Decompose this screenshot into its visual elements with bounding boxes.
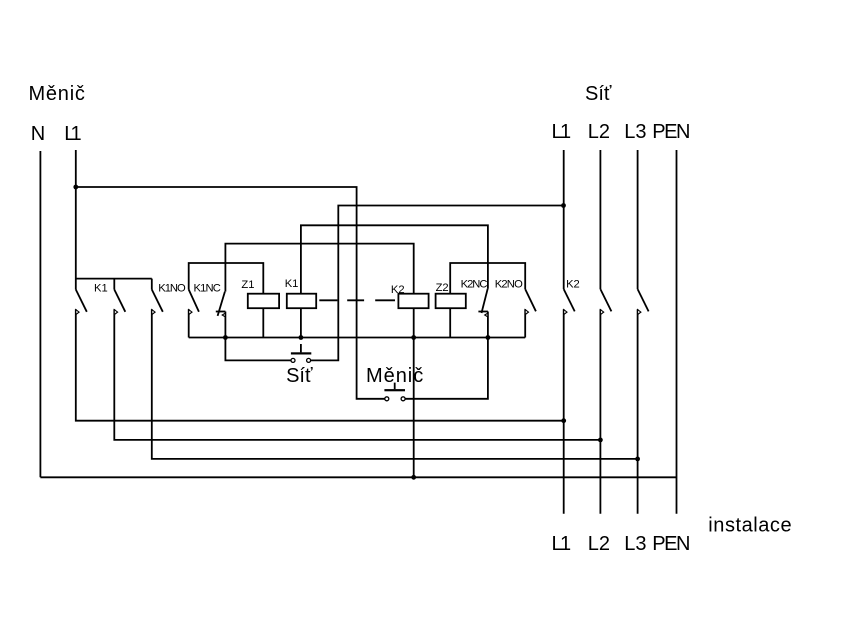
svg-text:Síť: Síť <box>286 365 313 387</box>
wire from K1NC contact top to K2 coil top <box>225 244 413 294</box>
junction dot output L2 <box>598 438 603 443</box>
junction dot mains L1 control tap <box>561 203 566 208</box>
junction dot K2NC/K2NO common <box>486 335 491 340</box>
svg-text:PEN: PEN <box>652 121 690 143</box>
svg-text:K1: K1 <box>94 283 108 295</box>
svg-text:Z2: Z2 <box>436 282 449 294</box>
auxiliary contact K2NC lower terminal down to Menic pushbutton <box>405 312 488 399</box>
coil K1 bottom stub <box>300 308 302 338</box>
svg-text:L3: L3 <box>624 533 646 555</box>
junction dot L1 inverter tap <box>73 185 78 190</box>
pushbutton Menic actuator bar <box>384 389 405 391</box>
contact tip K1 pole 2 <box>114 310 117 315</box>
junction dot output L3 <box>635 457 640 462</box>
contact tip K1NC <box>222 313 225 317</box>
mains L1 vertical wire upper <box>563 150 565 289</box>
contactor K1 pole 1 lower terminal to output L1 wire <box>76 309 564 421</box>
installation L3 vertical wire <box>637 309 639 514</box>
contactor K1 pole 3 top stub <box>151 279 153 290</box>
svg-text:K2: K2 <box>391 284 405 296</box>
auxiliary contact K1NC lower terminal <box>224 312 226 338</box>
svg-text:K1NC: K1NC <box>194 283 221 295</box>
node N (inverter neutral) vertical wire <box>39 151 41 477</box>
contact tip K1 pole 3 <box>152 310 155 315</box>
contactor K1 pole 2 blade <box>114 290 125 312</box>
pushbutton Sit actuator bar <box>291 352 311 354</box>
PEN vertical wire <box>676 150 678 514</box>
coil K2 <box>398 294 428 309</box>
svg-text:Měnič: Měnič <box>366 365 423 387</box>
mechanical interlock dashed link K1-K2 <box>319 299 395 301</box>
junction dot K2 coil bottom <box>411 335 416 340</box>
coil Z1 bottom stub <box>262 308 264 338</box>
auxiliary contact K2NC blade <box>482 289 488 313</box>
svg-text:L2: L2 <box>588 533 610 555</box>
junction dot K1 coil bottom <box>299 335 304 340</box>
wire from K1 coil top to K2NC contact top <box>301 225 488 293</box>
pushbutton Sit left terminal circle <box>291 358 295 362</box>
pushbutton Menic right terminal circle <box>401 397 405 401</box>
contactor K1 pole bridge wire <box>76 278 152 280</box>
auxiliary contact K2NO blade <box>525 289 536 311</box>
junction dot output L1 <box>561 418 566 423</box>
contact tip K2NC <box>485 313 488 317</box>
coil Z2 bottom stub <box>449 308 451 338</box>
svg-text:K2NO: K2NO <box>495 279 523 291</box>
contact tip K2 pole 3 <box>638 310 641 315</box>
svg-text:K2: K2 <box>566 278 580 290</box>
svg-text:L1: L1 <box>552 121 572 143</box>
contact tip K2 pole 1 <box>564 310 567 315</box>
svg-text:L1: L1 <box>552 533 572 555</box>
auxiliary contact K1NC blade <box>218 292 225 316</box>
mains L3 vertical wire upper <box>637 150 639 289</box>
auxiliary contact K2NC fixed bar <box>478 311 488 313</box>
svg-text:K2NC: K2NC <box>461 279 488 291</box>
contactor K1 pole 2 lower terminal to output L2 wire <box>114 309 600 440</box>
coil K2 bottom wire down to bottom bus <box>413 308 415 478</box>
node L1 (inverter) vertical wire down to K1 bridge <box>75 150 77 290</box>
junction dot K1NO/K1NC common <box>223 335 228 340</box>
wire from Z2 coil top to K2NO contact top <box>450 263 525 294</box>
installation L2 vertical wire <box>599 309 601 514</box>
mains L2 vertical wire upper <box>599 150 601 289</box>
contactor K1 pole 2 top stub <box>113 279 115 290</box>
contact tip K1 pole 1 <box>76 310 79 315</box>
contact tip K1NO <box>189 310 192 315</box>
coil Z2 <box>436 294 466 309</box>
wire from K1NO contact top to Z1 coil top <box>189 263 264 294</box>
svg-text:Z1: Z1 <box>241 279 254 291</box>
contactor K2 pole 1 blade <box>564 289 575 311</box>
contactor K2 pole 3 blade <box>638 289 649 311</box>
contactor K2 pole 2 blade <box>600 289 611 311</box>
svg-text:L1: L1 <box>64 123 81 145</box>
contact tip K2 pole 2 <box>600 310 603 315</box>
pushbutton Sit right terminal circle <box>307 358 311 362</box>
auxiliary contact K1NC fixed bar <box>216 311 226 313</box>
svg-text:N: N <box>31 123 45 145</box>
common control return wire <box>189 337 526 339</box>
svg-text:L2: L2 <box>588 121 610 143</box>
junction dot N to PEN bus <box>411 475 416 480</box>
pushbutton Menic left terminal circle <box>385 397 389 401</box>
contact tip K2NO <box>525 310 528 315</box>
wire N to PEN bottom bus <box>40 476 676 478</box>
svg-text:K1NO: K1NO <box>158 283 186 295</box>
svg-text:PEN: PEN <box>652 533 690 555</box>
wire Sit pushbutton left leg from junction <box>225 338 291 361</box>
svg-text:instalace: instalace <box>708 514 791 536</box>
auxiliary contact K1NO blade <box>189 290 199 312</box>
svg-text:L3: L3 <box>624 121 646 143</box>
pushbutton Menic actuator stem <box>394 383 396 390</box>
auxiliary contact K1NO lower terminal <box>188 309 190 337</box>
svg-text:Měnič: Měnič <box>29 83 85 105</box>
wire from L1 inverter tap to Menic pushbutton branch <box>76 187 385 399</box>
svg-text:K1: K1 <box>285 278 299 290</box>
pushbutton Sit actuator stem <box>300 344 302 352</box>
contactor K1 pole 1 blade <box>76 290 87 312</box>
wire from Sit L1 tap to Sit pushbutton branch <box>311 206 564 361</box>
contactor K1 pole 3 lower terminal to output L3 wire <box>152 309 638 459</box>
coil K1 <box>287 294 316 309</box>
svg-text:Síť: Síť <box>585 83 612 105</box>
auxiliary contact K2NO lower terminal <box>524 309 526 337</box>
installation L1 vertical wire <box>563 309 565 514</box>
coil Z1 <box>248 294 279 309</box>
contactor K1 pole 3 blade <box>152 290 163 312</box>
